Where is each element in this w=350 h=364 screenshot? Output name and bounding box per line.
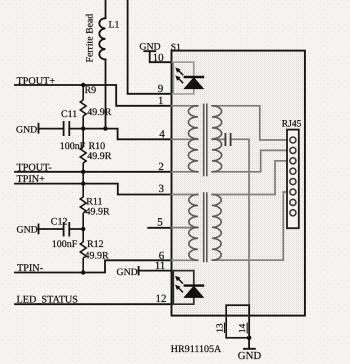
svg-text:100nF: 100nF xyxy=(52,239,78,250)
svg-text:TPIN+: TPIN+ xyxy=(17,174,46,185)
svg-text:2: 2 xyxy=(158,161,164,173)
svg-text:49.9R: 49.9R xyxy=(85,250,110,261)
svg-text:3: 3 xyxy=(159,183,165,195)
svg-text:4: 4 xyxy=(159,129,165,141)
svg-text:49.9R: 49.9R xyxy=(87,107,112,118)
svg-text:TPOUT+: TPOUT+ xyxy=(17,76,56,87)
svg-text:GND: GND xyxy=(17,224,38,235)
svg-text:12: 12 xyxy=(156,293,167,305)
svg-text:TPOUT-: TPOUT- xyxy=(17,162,53,173)
svg-text:S1: S1 xyxy=(171,43,181,53)
svg-text:TPIN-: TPIN- xyxy=(17,263,44,274)
svg-text:Ferrite Bead: Ferrite Bead xyxy=(84,14,95,63)
svg-text:13: 13 xyxy=(214,323,224,333)
svg-text:49.9R: 49.9R xyxy=(86,207,111,218)
svg-text:49.9R: 49.9R xyxy=(87,151,112,162)
svg-text:GND: GND xyxy=(238,350,262,362)
svg-text:9: 9 xyxy=(158,83,164,95)
svg-text:R12: R12 xyxy=(87,239,104,250)
svg-text:1: 1 xyxy=(158,95,164,107)
svg-text:C12: C12 xyxy=(51,216,68,227)
svg-text:GND: GND xyxy=(117,267,138,278)
svg-text:10: 10 xyxy=(153,52,165,64)
svg-text:RJ45: RJ45 xyxy=(282,119,302,129)
svg-text:LED_STATUS: LED_STATUS xyxy=(17,294,79,305)
svg-text:C11: C11 xyxy=(61,109,77,120)
svg-text:L1: L1 xyxy=(109,20,120,31)
svg-text:11: 11 xyxy=(155,260,166,272)
svg-text:GND: GND xyxy=(16,124,37,135)
svg-text:14: 14 xyxy=(237,323,247,333)
svg-text:HR911105A: HR911105A xyxy=(171,344,222,355)
svg-text:5: 5 xyxy=(157,216,163,228)
svg-text:R9: R9 xyxy=(85,85,97,96)
svg-text:100nF: 100nF xyxy=(60,141,86,152)
